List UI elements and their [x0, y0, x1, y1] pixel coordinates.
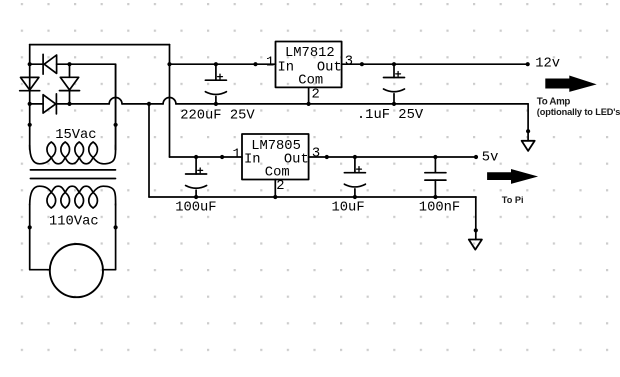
node 100nF bottom junction: [433, 195, 437, 199]
svg-text:12v: 12v: [535, 56, 560, 71]
node 100nF top junction: [433, 155, 437, 159]
node 5v wire end: [474, 155, 478, 159]
node LM7812 pin1 endpoint: [253, 62, 257, 66]
wire upper 0V rail with hops: [56, 103, 109, 105]
ground lower (5V section): [475, 197, 477, 240]
svg-text:100uF: 100uF: [175, 200, 216, 215]
svg-text:To Amp: To Amp: [537, 96, 571, 107]
ground upper (12V section): [527, 104, 529, 141]
node LM7805 pin2 junction: [273, 195, 277, 199]
svg-text:.1uF 25V: .1uF 25V: [357, 108, 424, 123]
node transformer pri left pin: [28, 225, 32, 229]
node bridge left top junction: [28, 62, 32, 66]
node transformer sec right pin: [114, 123, 118, 127]
node 10uF bottom junction: [353, 195, 357, 199]
node .1uF top junction: [392, 62, 396, 66]
wire ground link vertical rail1 to rail2: [148, 104, 150, 197]
wire left bridge vertical: [29, 45, 31, 150]
node LM7812 pin3 endpoint: [360, 62, 364, 66]
capacitor 100nF ceramic: [434, 157, 436, 173]
wire lower 0V rail: [149, 196, 476, 198]
svg-text:1: 1: [233, 147, 241, 162]
node LM7812 pin2 junction: [307, 102, 311, 106]
wire primary left vertical: [30, 204, 50, 270]
node bridge right top junction: [67, 62, 71, 66]
arrow To Pi: [487, 169, 538, 184]
svg-text:2: 2: [276, 179, 284, 194]
op-amp U2 LM7805 regulator box: [242, 134, 309, 180]
node 10uF top junction: [353, 155, 357, 159]
node transformer sec left pin: [28, 123, 32, 127]
wire diode row left segment: [30, 63, 43, 65]
wire rail segment bridge bottom left: [30, 103, 43, 105]
node 220uF top junction: [214, 62, 218, 66]
svg-text:5v: 5v: [482, 151, 499, 166]
capacitor 220uF electrolytic: [215, 64, 217, 80]
wire LM7812 input from DC+: [170, 63, 276, 65]
wire bridge right vertical lower: [69, 91, 71, 104]
node 220uF bottom junction: [214, 102, 218, 106]
wire transformer right vertical through hop: [115, 64, 117, 149]
diode bridge right (pointing down): [60, 77, 78, 90]
svg-text:10uF: 10uF: [332, 200, 365, 215]
transformer core separator: [30, 169, 115, 171]
wire LM7805 pin2 to rail: [274, 180, 276, 198]
svg-text:LM7812: LM7812: [285, 46, 335, 61]
svg-text:15Vac: 15Vac: [55, 128, 96, 143]
wire primary right vertical: [103, 204, 116, 270]
diode bridge top (pointing left): [42, 54, 44, 74]
diode bridge left (pointing down): [21, 77, 39, 90]
arrow To Amp: [545, 76, 596, 92]
node lower ground pin: [474, 228, 478, 232]
wire LM7812 output to 12v: [342, 63, 528, 65]
wire LM7805 output to 5v: [309, 156, 476, 158]
wire diode row right segment to corner: [57, 64, 116, 149]
node 100uF top junction: [194, 155, 198, 159]
svg-text:In: In: [278, 60, 295, 75]
wire bridge right vertical upper: [69, 64, 71, 77]
capacitor 10uF electrolytic: [354, 157, 356, 173]
node LM7805 pin1 endpoint: [220, 155, 224, 159]
node DC+ junction: [167, 62, 171, 66]
node upper ground pin: [526, 129, 530, 133]
wire top from bridge to DC+ corner: [30, 44, 170, 46]
node transformer pri right pin: [114, 225, 118, 229]
svg-text:1: 1: [266, 55, 274, 70]
svg-text:To Pi: To Pi: [502, 195, 524, 205]
wire LM7805 input run: [170, 156, 243, 158]
wire DC+ vertical down to LM7805 input corner: [169, 45, 171, 157]
svg-text:3: 3: [312, 146, 320, 161]
transformer secondary winding 15Vac: [30, 145, 116, 164]
capacitor 100uF electrolytic: [195, 157, 197, 174]
transformer primary winding 110Vac: [30, 186, 116, 205]
node bridge left bottom junction: [28, 102, 32, 106]
svg-text:110Vac: 110Vac: [49, 215, 99, 230]
svg-text:220uF 25V: 220uF 25V: [180, 109, 255, 124]
svg-text:100nF: 100nF: [419, 200, 460, 215]
AC source circle: [50, 244, 103, 297]
node .1uF bottom junction: [392, 102, 396, 106]
svg-text:2: 2: [312, 87, 320, 102]
wire LM7812 pin2 to rail: [308, 87, 310, 104]
node 100uF bottom junction: [194, 195, 198, 199]
diode bridge bottom (pointing right): [43, 95, 56, 113]
svg-text:3: 3: [345, 54, 353, 69]
node bridge right bottom junction: [67, 102, 71, 106]
node LM7805 pin3 endpoint: [325, 155, 329, 159]
node 12v wire end: [526, 62, 530, 66]
svg-text:In: In: [244, 153, 261, 168]
svg-text:(optionally to LED's): (optionally to LED's): [537, 107, 620, 117]
capacitor .1uF electrolytic: [393, 64, 395, 77]
node ground link junction: [147, 102, 151, 106]
svg-text:Com: Com: [298, 73, 323, 88]
op-amp U1 LM7812 regulator box: [276, 42, 342, 88]
